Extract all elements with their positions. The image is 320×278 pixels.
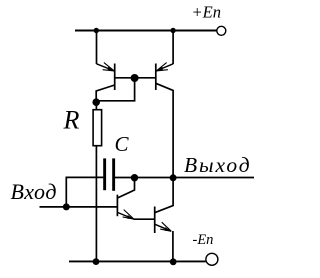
svg-text:Выход: Выход <box>184 153 252 177</box>
svg-text:Вход: Вход <box>11 179 58 204</box>
svg-text:-Еп: -Еп <box>193 232 214 248</box>
svg-text:C: C <box>115 132 130 156</box>
svg-text:R: R <box>63 106 80 135</box>
svg-text:+Еп: +Еп <box>192 3 221 22</box>
